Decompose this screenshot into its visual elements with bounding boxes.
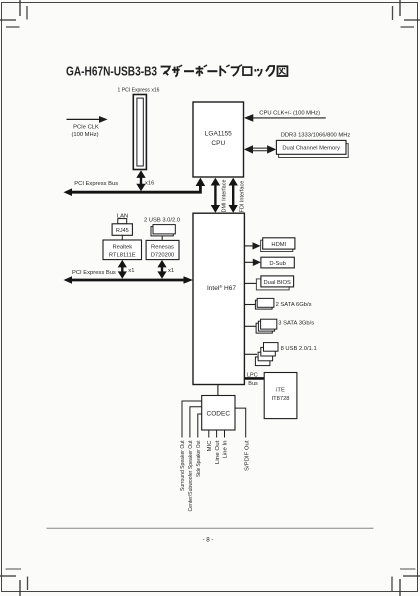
PCIe x16 slot inner <box>137 98 143 166</box>
Dual BIOS box <box>261 276 294 287</box>
svg-text:- 8 -: - 8 - <box>202 537 213 544</box>
wire H67 to USB 2.0 <box>244 353 257 355</box>
svg-text:PCIe CLK: PCIe CLK <box>73 124 99 130</box>
svg-text:Dual Channel Memory: Dual Channel Memory <box>282 146 340 152</box>
Dual BIOS shadow box <box>256 279 289 290</box>
top PCI Express bus thick wire <box>70 184 200 192</box>
SATA 3G mid box <box>258 321 274 331</box>
LAN jack stub <box>118 219 127 224</box>
svg-text:PCI Express Bus: PCI Express Bus <box>74 181 118 187</box>
LPC bus thick wire <box>244 377 264 380</box>
svg-text:1 PCI Express x16: 1 PCI Express x16 <box>118 88 160 94</box>
svg-text:CPU: CPU <box>211 140 225 147</box>
katakana long bar <box>184 70 194 72</box>
katakana bu <box>231 65 242 76</box>
svg-text:8 USB 2.0/1.1: 8 USB 2.0/1.1 <box>281 346 317 352</box>
wire line out <box>216 430 218 438</box>
x1 double arrow Renesas <box>157 260 166 279</box>
svg-text:IT8728: IT8728 <box>271 396 289 402</box>
H67 chipset box <box>193 213 244 384</box>
wire surround speaker out <box>182 401 202 438</box>
svg-text:iTE: iTE <box>276 388 285 394</box>
wire MIC <box>208 430 210 438</box>
svg-text:PCI Express Bus: PCI Express Bus <box>72 270 116 276</box>
svg-text:MIC: MIC <box>207 441 213 452</box>
dual channel memory box <box>276 140 346 154</box>
SATA 3G front box <box>261 319 277 329</box>
CPU CLK arrow into CPU <box>244 114 326 122</box>
katakana ma <box>161 67 170 76</box>
crop mark top-left <box>0 0 27 27</box>
svg-text:3 SATA 3Gb/s: 3 SATA 3Gb/s <box>278 321 314 327</box>
wire center/subwoofer speaker out <box>190 407 202 438</box>
DMI interface double arrow <box>211 178 220 213</box>
x1 double arrow Realtek <box>118 260 127 279</box>
svg-text:Intel® H67: Intel® H67 <box>207 284 236 292</box>
wire side speaker out <box>198 414 202 438</box>
wire S/PDIF out <box>235 408 246 437</box>
svg-text:x1: x1 <box>128 268 134 274</box>
SATA 6G back box <box>255 300 272 309</box>
RJ45 box <box>112 224 132 236</box>
ITE IT8728 box <box>264 373 297 419</box>
footer rule <box>47 527 374 529</box>
HDMI shadow box <box>261 240 293 251</box>
lower PCI Express bus thick wire <box>70 279 185 282</box>
Realtek RTL8111E box <box>103 240 142 260</box>
USB2 box 3 <box>258 352 273 361</box>
svg-text:2 SATA 6Gb/s: 2 SATA 6Gb/s <box>276 302 312 308</box>
USB2 box 2 <box>261 347 276 356</box>
wire H67 to SATA 3Gb/s <box>244 325 257 327</box>
katakana bo <box>196 65 207 76</box>
crop mark top-right <box>393 0 420 27</box>
svg-text:S/PDIF Out: S/PDIF Out <box>244 440 250 471</box>
svg-text:Renesas: Renesas <box>151 245 174 251</box>
svg-text:DMI Interface: DMI Interface <box>222 179 228 212</box>
D-Sub box <box>261 257 294 268</box>
wire H67 to SATA 6Gb/s <box>244 304 256 306</box>
USB2 box 4 (back) <box>255 357 270 366</box>
top bus arrowhead into CPU <box>196 178 206 186</box>
lower bus right arrowhead into H67 <box>184 276 194 284</box>
katakana za <box>172 65 182 77</box>
svg-text:RTL8111E: RTL8111E <box>109 252 136 258</box>
crop mark bottom-left <box>0 569 28 596</box>
svg-text:DDR3 1333/1066/800 MHz: DDR3 1333/1066/800 MHz <box>281 133 351 139</box>
USB connector box <box>153 225 175 234</box>
memory bus double arrow <box>244 145 276 153</box>
svg-text:Dual BIOS: Dual BIOS <box>264 280 292 286</box>
x16 double arrow slot to bus <box>136 170 145 191</box>
svg-text:2 USB 3.0/2.0: 2 USB 3.0/2.0 <box>144 218 180 224</box>
wire H67 to HDMI with arrow <box>244 245 254 247</box>
svg-text:x16: x16 <box>145 180 154 186</box>
crop mark bottom-right <box>392 569 420 596</box>
svg-text:CODEC: CODEC <box>207 410 231 417</box>
svg-text:Realtek: Realtek <box>112 244 132 250</box>
svg-text:CPU CLK+/- (100 MHz): CPU CLK+/- (100 MHz) <box>259 110 320 116</box>
kanji zu (diagram) <box>278 66 288 76</box>
svg-text:(100 MHz): (100 MHz) <box>71 132 98 138</box>
svg-text:Line In: Line In <box>223 441 229 459</box>
CPU box LGA1155 <box>193 102 244 177</box>
dual channel memory shadow box <box>279 144 349 158</box>
PCIe CLK arrow <box>67 116 108 123</box>
katakana long bar 2 <box>207 70 217 72</box>
svg-text:LGA1155: LGA1155 <box>205 131 232 138</box>
wire H67 to D-Sub with arrow <box>244 261 254 263</box>
svg-text:Surround Speaker Out: Surround Speaker Out <box>180 440 186 491</box>
SATA 6G front box <box>257 298 274 307</box>
title katakana (hand-drawn vector glyphs) <box>161 65 288 77</box>
CODEC box <box>202 396 235 431</box>
svg-text:Bus: Bus <box>248 381 258 387</box>
lower bus left arrowhead <box>64 276 73 284</box>
svg-text:D-Sub: D-Sub <box>269 261 285 267</box>
svg-text:HDMI: HDMI <box>271 242 286 248</box>
svg-text:x1: x1 <box>168 268 174 274</box>
USB connector shadow box <box>151 227 173 236</box>
svg-text:RJ45: RJ45 <box>116 228 129 234</box>
HDMI box <box>263 238 295 249</box>
Renesas D720200 box <box>146 240 179 259</box>
wire line in <box>224 430 226 438</box>
wire H67 to Dual BIOS <box>244 282 257 284</box>
top bus left arrowhead <box>64 188 73 196</box>
svg-text:Line Out: Line Out <box>215 440 221 464</box>
wire H67 to CODEC <box>217 385 219 396</box>
USB2 box 1 (front) <box>264 343 279 352</box>
katakana ku <box>266 66 274 76</box>
FDI interface double arrow <box>229 178 238 213</box>
katakana do <box>220 65 229 76</box>
PCIe x16 slot outer <box>133 95 146 170</box>
katakana ro <box>243 67 252 75</box>
svg-text:Side Speaker Out: Side Speaker Out <box>196 440 202 477</box>
svg-text:Center/Subwoofer Speaker Out: Center/Subwoofer Speaker Out <box>188 440 194 511</box>
svg-text:FDI Interface: FDI Interface <box>239 181 245 213</box>
wire USB to Renesas <box>161 236 163 241</box>
wire RJ45 to Realtek <box>121 235 123 240</box>
svg-text:GA-H67N-USB3-B3: GA-H67N-USB3-B3 <box>66 63 157 78</box>
svg-text:D720200: D720200 <box>151 253 175 259</box>
katakana small tsu <box>255 69 262 76</box>
SATA 3G back box <box>256 323 272 333</box>
